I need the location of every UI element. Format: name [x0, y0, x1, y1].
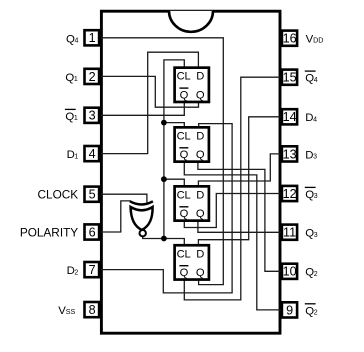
label Q4 (pin 1) [66, 33, 78, 45]
pin 16 box [282, 31, 297, 46]
svg-text:Q: Q [180, 208, 189, 220]
label Q2bar (pin 9) [305, 304, 318, 318]
svg-text:12: 12 [283, 187, 297, 201]
pin 4 box [85, 146, 100, 161]
svg-text:2: 2 [314, 310, 318, 317]
wire Q2 output of latch U1B to pin10 [198, 162, 282, 271]
svg-text:11: 11 [283, 226, 296, 240]
wire pin6 POLARITY to XNOR gate input [101, 201, 131, 232]
wire pin1 to Q4 output of latch U1D [101, 38, 223, 285]
svg-text:2: 2 [74, 269, 78, 276]
svg-text:7: 7 [89, 263, 96, 277]
wire pin5 CLOCK to XNOR gate input [101, 194, 147, 204]
wire Q4bar output of latch U1D to pin15 [184, 77, 281, 300]
pin 2 box [85, 69, 100, 84]
svg-text:4: 4 [314, 77, 318, 84]
label Q1 (pin 2) [65, 72, 77, 84]
XNOR gate G1 (clock polarity selector, pointing down) [130, 201, 153, 236]
svg-text:3: 3 [314, 232, 318, 239]
label D1 (pin 4) [67, 149, 79, 161]
wire pin13 D3 to D input of latch U1C [198, 154, 281, 186]
wire Q3bar output of latch U1C to pin12 [184, 194, 281, 228]
svg-text:5: 5 [89, 188, 96, 202]
svg-text:CLOCK: CLOCK [38, 188, 79, 202]
junction dot clock net at latch U1C branch [161, 176, 167, 182]
svg-text:15: 15 [283, 71, 297, 85]
svg-text:Q: Q [180, 89, 189, 101]
wire pin2 to Q output of latch U1A [101, 76, 199, 107]
junction dot clock net at latch U1B branch [161, 120, 167, 126]
label Q3 (pin 11) [305, 228, 317, 240]
svg-text:CL: CL [177, 189, 191, 201]
pin 10 box [282, 264, 297, 279]
latch U1D (CL D / Qbar Q) [175, 245, 209, 279]
wire clock branch to CL input of latch U1C [164, 179, 184, 186]
svg-text:1: 1 [89, 31, 96, 45]
svg-text:SS: SS [66, 307, 76, 316]
pin 8 box [85, 302, 100, 317]
pin 9 box [282, 302, 297, 317]
latch U1C (CL D / Qbar Q) [175, 186, 209, 220]
wire clock branch to CL input of latch U1B [164, 123, 184, 127]
wire pin14 D4 to D input of latch U1D [198, 117, 281, 245]
pin 14 box [282, 109, 297, 124]
svg-text:Q: Q [196, 89, 205, 101]
svg-text:3: 3 [313, 154, 317, 161]
pin 15 box [282, 70, 297, 85]
svg-text:1: 1 [74, 153, 78, 160]
svg-text:CL: CL [177, 130, 191, 142]
svg-text:4: 4 [89, 147, 96, 161]
svg-text:13: 13 [283, 147, 297, 161]
label Q3bar (pin 12) [305, 187, 318, 201]
IC body U1 (DIP-16 outline) [101, 11, 280, 333]
wire Q3 output of latch U1C to pin11 [198, 221, 282, 232]
label D4 (pin 14) [305, 112, 317, 124]
wire Q2bar output of latch U1B to pin9 [184, 162, 281, 310]
label Q2 (pin 10) [305, 267, 317, 279]
svg-text:Q: Q [196, 208, 205, 220]
junction dot clock net at XNOR output [161, 236, 167, 242]
wire pin4 D1 to D input of latch U1A [101, 52, 198, 153]
latch U1B (CL D / Qbar Q) [175, 127, 209, 161]
svg-text:14: 14 [283, 110, 297, 124]
label VSS (pin 8) [58, 305, 75, 317]
pin 1 box [85, 30, 100, 45]
svg-text:3: 3 [314, 193, 318, 200]
svg-text:DD: DD [313, 36, 323, 45]
pin 12 box [282, 186, 297, 201]
svg-text:16: 16 [283, 32, 297, 46]
svg-text:Q: Q [196, 149, 205, 161]
pin 13 box [282, 146, 297, 161]
svg-text:4: 4 [313, 116, 317, 123]
wire clock net riser to CL input of latch U1A [164, 60, 184, 239]
svg-text:CL: CL [177, 71, 191, 83]
label D3 (pin 13) [305, 149, 317, 161]
svg-text:9: 9 [286, 303, 293, 317]
svg-text:4: 4 [74, 38, 78, 45]
svg-text:10: 10 [283, 265, 297, 279]
svg-text:Q: Q [196, 267, 205, 279]
pin 7 box [85, 262, 100, 277]
wire clock net: XNOR output to CL input of latch U1D [143, 237, 185, 245]
svg-text:2: 2 [89, 70, 96, 84]
svg-text:D: D [196, 189, 204, 201]
svg-text:D: D [196, 248, 204, 260]
wire pin3 to Qbar output of latch U1A [101, 103, 184, 116]
latch U1A (CL D / Qbar Q) [175, 68, 209, 102]
label Q4bar (pin 15) [305, 71, 318, 85]
notch (pin-1 index semicircle) [169, 11, 213, 32]
pin 6 box [85, 224, 100, 239]
svg-text:POLARITY: POLARITY [20, 225, 78, 239]
svg-text:CL: CL [177, 248, 191, 260]
svg-text:1: 1 [74, 115, 78, 122]
svg-text:Q: Q [180, 149, 189, 161]
label Q1bar (pin 3) [65, 109, 78, 123]
pin 5 box [85, 187, 100, 202]
svg-text:2: 2 [314, 271, 318, 278]
svg-text:6: 6 [89, 225, 96, 239]
label VDD (pin 16) [306, 34, 324, 46]
svg-text:D: D [196, 130, 204, 142]
svg-text:Q: Q [180, 267, 189, 279]
wire pin7 D2 to D input of latch U1B [101, 124, 232, 293]
svg-text:1: 1 [74, 76, 78, 83]
svg-text:8: 8 [89, 303, 96, 317]
pin 3 box [85, 108, 100, 123]
pin 11 box [282, 225, 297, 240]
label D2 (pin 7) [67, 265, 79, 277]
svg-text:3: 3 [89, 109, 96, 123]
svg-text:D: D [196, 71, 204, 83]
